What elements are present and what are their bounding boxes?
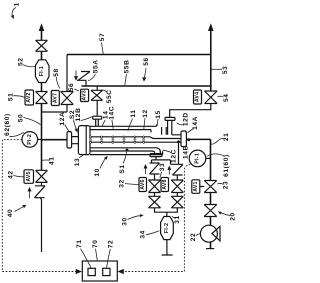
- svg-text:71: 71: [76, 239, 83, 248]
- join wires: [155, 208, 178, 217]
- wire line 50 vertical: [41, 31, 43, 170]
- node dot S1: [126, 149, 129, 152]
- wire from node to right branch: [178, 142, 180, 164]
- hand valve right lower: [171, 193, 183, 208]
- svg-text:14A: 14A: [192, 116, 199, 130]
- labels above reactor: [59, 106, 230, 159]
- svg-text:51: 51: [7, 93, 14, 102]
- svg-text:PI-2: PI-2: [27, 134, 33, 145]
- valve AV6: [149, 180, 161, 193]
- svg-text:AV6: AV6: [140, 179, 146, 189]
- svg-text:58: 58: [53, 68, 60, 77]
- hand valve on line 40 (Z): [35, 182, 46, 252]
- valve Z left (33): [150, 163, 160, 180]
- pressure gauge PI-1 (61): [189, 150, 230, 177]
- svg-text:57: 57: [99, 33, 106, 42]
- reactor inlet wire: [42, 139, 68, 141]
- vacuum pump 22: [190, 225, 220, 248]
- valve AV8: [171, 180, 183, 193]
- purge gas unit 30: [119, 142, 184, 255]
- wire line 55C branch: [96, 86, 98, 116]
- svg-text:70: 70: [92, 239, 99, 248]
- figure number 1: [11, 2, 20, 19]
- flow arrow down: [75, 71, 77, 78]
- svg-text:42: 42: [7, 170, 14, 179]
- svg-text:23: 23: [223, 181, 230, 190]
- svg-text:AV5: AV5: [26, 171, 32, 181]
- svg-text:41: 41: [49, 156, 56, 165]
- svg-text:14B: 14B: [183, 145, 190, 159]
- svg-text:12A: 12A: [59, 112, 66, 126]
- node arrow outlet top-left: [39, 23, 45, 31]
- svg-text:50: 50: [18, 114, 25, 123]
- svg-text:12B: 12B: [75, 108, 82, 122]
- svg-text:54: 54: [223, 93, 230, 102]
- port 12D flange: [165, 117, 175, 120]
- svg-text:AV2: AV2: [26, 92, 32, 102]
- svg-text:55B: 55B: [124, 60, 131, 74]
- svg-text:10: 10: [94, 168, 101, 177]
- valve AV1 (23): [204, 181, 217, 193]
- labels below reactor: [74, 149, 178, 177]
- svg-text:55A: 55A: [93, 59, 100, 73]
- svg-text:11: 11: [130, 109, 137, 117]
- valve AV2: [36, 92, 48, 104]
- svg-text:AV7: AV7: [52, 93, 58, 103]
- outlet flange 14B: [181, 131, 186, 147]
- svg-text:FI-1: FI-1: [39, 66, 45, 76]
- hand valve 20: [204, 205, 217, 217]
- hand valve left lower: [149, 193, 161, 208]
- svg-text:53: 53: [222, 66, 229, 75]
- svg-text:AV8: AV8: [162, 179, 168, 189]
- svg-text:14C: 14C: [108, 106, 115, 120]
- svg-text:61(60): 61(60): [223, 154, 230, 177]
- node dot on exhaust line: [177, 140, 180, 143]
- svg-text:AV3: AV3: [82, 90, 88, 100]
- svg-text:56: 56: [68, 83, 75, 92]
- svg-text:40: 40: [7, 209, 14, 218]
- controller 70: [76, 239, 117, 281]
- flow controller FI-2 (34): [161, 217, 174, 240]
- svg-text:62(60): 62(60): [4, 113, 11, 136]
- flow arrow right: [168, 169, 170, 175]
- svg-text:56: 56: [143, 57, 150, 66]
- inlet flange 12A: [67, 132, 72, 148]
- wire line 21 horizontal: [186, 139, 210, 180]
- svg-text:FI-2: FI-2: [164, 223, 170, 233]
- svg-text:32: 32: [119, 179, 126, 188]
- valve Z right: [171, 164, 184, 180]
- flow arrow left: [145, 168, 147, 175]
- svg-text:30: 30: [122, 217, 129, 226]
- port 12B flange: [93, 116, 102, 119]
- wire: [210, 217, 212, 226]
- wire line 55B: [82, 85, 211, 87]
- svg-text:12: 12: [142, 109, 149, 118]
- svg-text:AV1: AV1: [193, 181, 199, 191]
- svg-text:13: 13: [74, 158, 81, 167]
- end cap 13: [78, 126, 90, 155]
- control dotted wires: [2, 140, 75, 272]
- svg-text:1: 1: [13, 2, 20, 6]
- port 12C elbow flange: [150, 154, 162, 157]
- wire elbow 54 to port 12D: [170, 104, 211, 118]
- furnace body lines: [90, 124, 157, 126]
- svg-text:AV4: AV4: [195, 92, 201, 102]
- port 12C stem wire: [152, 157, 171, 165]
- wire line 58 branch: [42, 55, 68, 113]
- wire line 57 bypass: [67, 54, 211, 56]
- svg-text:12C: 12C: [171, 149, 178, 163]
- wafer boat stations: [89, 136, 92, 143]
- wire: [210, 193, 212, 205]
- svg-text:55C: 55C: [106, 89, 113, 103]
- valve AV4 (54): [205, 91, 218, 104]
- svg-text:31: 31: [174, 215, 181, 224]
- valve (hand valve on line 50): [36, 40, 48, 51]
- svg-text:34: 34: [140, 230, 147, 239]
- wire line 53 vertical: [210, 31, 212, 91]
- svg-text:22: 22: [190, 233, 197, 242]
- flow meter FI-1: [35, 60, 49, 83]
- inlet valve at 55B left (Z valve): [77, 72, 90, 87]
- svg-text:PI-1: PI-1: [195, 153, 201, 164]
- svg-text:12D: 12D: [183, 112, 190, 126]
- valve AV5 (42): [36, 170, 48, 182]
- svg-text:20: 20: [230, 212, 237, 221]
- svg-text:S1: S1: [119, 164, 126, 173]
- svg-text:21: 21: [223, 133, 230, 142]
- svg-text:72: 72: [107, 240, 114, 249]
- svg-text:33: 33: [159, 163, 166, 172]
- valve AV7: [61, 92, 74, 105]
- svg-text:15: 15: [155, 110, 162, 119]
- valve AV3 (55C): [91, 90, 103, 100]
- pressure gauge PI-2 (62): [4, 113, 42, 147]
